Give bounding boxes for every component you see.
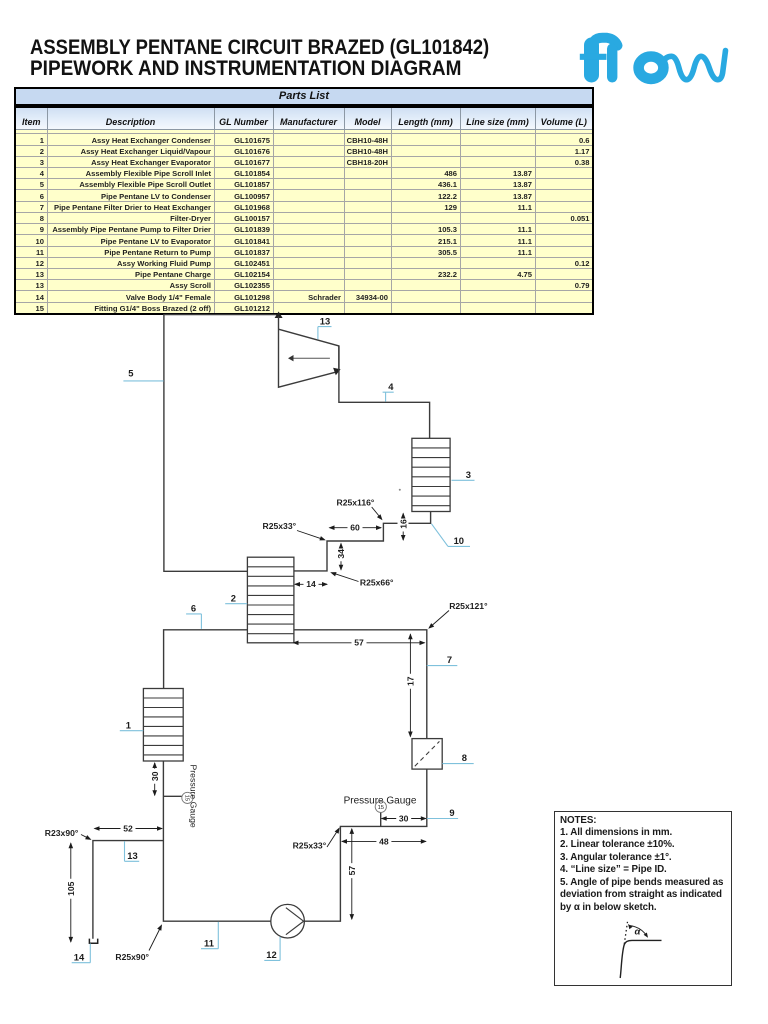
dim 60	[330, 527, 382, 529]
dim 57 top	[294, 642, 425, 644]
svg-text:R25x33°: R25x33°	[293, 840, 327, 850]
svg-text:R25x121°: R25x121°	[449, 601, 488, 611]
svg-text:R25x90°: R25x90°	[115, 952, 149, 962]
fitting 14 (valve body cup)	[89, 939, 97, 944]
svg-text:48: 48	[379, 836, 389, 846]
dim 16	[398, 517, 409, 536]
svg-text:60: 60	[350, 523, 360, 533]
svg-text:17: 17	[406, 676, 416, 686]
svg-text:Pressure Gauge: Pressure Gauge	[189, 765, 199, 828]
wire: pipe 10 HX3 to HX2	[294, 512, 431, 571]
logo l	[607, 49, 617, 78]
svg-text:15: 15	[183, 795, 189, 801]
heat exchanger 1 (evaporator)	[143, 689, 183, 762]
pump 12	[271, 904, 305, 938]
dim 34	[340, 544, 342, 570]
wire: pipe 13 charge branch	[93, 841, 163, 939]
flow arrow inside scroll	[293, 357, 330, 359]
dim 48	[342, 840, 426, 842]
logo o	[639, 57, 664, 79]
logo w	[664, 51, 726, 80]
svg-text:13: 13	[127, 850, 137, 861]
page title line 1	[30, 37, 489, 58]
svg-text:57: 57	[354, 638, 364, 648]
dim 30 right	[382, 818, 426, 820]
wire: pipe 6 HX2 to HX1	[164, 630, 248, 689]
svg-text:13: 13	[320, 316, 330, 327]
dim 17	[409, 634, 411, 736]
svg-text:34: 34	[336, 549, 346, 559]
svg-text:105: 105	[66, 881, 76, 896]
svg-text:12: 12	[266, 949, 276, 960]
notes sketch: pipe bend	[620, 940, 661, 978]
svg-text:6: 6	[191, 603, 196, 614]
wire: gauge 1 stub	[163, 795, 181, 797]
svg-text:57: 57	[347, 866, 357, 876]
svg-text:R23x90°: R23x90°	[45, 828, 79, 838]
flow logo	[575, 25, 760, 95]
dim 105	[70, 843, 72, 942]
parts list table	[14, 87, 594, 315]
svg-text:15: 15	[378, 805, 384, 811]
stray dot	[399, 489, 401, 491]
pressure gauge 1	[182, 792, 193, 803]
svg-text:3: 3	[466, 469, 471, 480]
arrowhead into scroll inlet	[275, 312, 283, 319]
scroll compressor 13 (trapezoid)	[279, 317, 339, 388]
svg-text:14: 14	[74, 951, 85, 962]
logo f	[584, 45, 599, 75]
svg-text:R25x116°: R25x116°	[337, 498, 375, 508]
svg-text:30: 30	[150, 771, 160, 781]
wire: scroll outlet pipe 5 (left tall riser + top run)	[164, 315, 277, 572]
svg-text:5: 5	[128, 368, 133, 379]
svg-text:10: 10	[454, 535, 464, 546]
svg-text:8: 8	[462, 752, 467, 763]
wire: pump outlet to filter	[304, 769, 426, 921]
notes sketch: dotted straight extension	[624, 922, 627, 944]
svg-text:52: 52	[123, 823, 133, 833]
svg-text:9: 9	[449, 807, 454, 818]
heat exchanger 2 (liquid/vapour)	[247, 557, 294, 643]
wire: pipe 4 scroll to condenser HX3	[339, 346, 430, 438]
dim 14	[295, 583, 327, 585]
dim 30 left	[154, 763, 156, 795]
page title line 2	[30, 58, 461, 79]
svg-text:1: 1	[126, 719, 131, 730]
dim 57 right	[351, 829, 353, 919]
svg-text:4: 4	[388, 381, 394, 392]
svg-text:30: 30	[399, 813, 409, 823]
wire: pipe 11 HX1 down to pump	[163, 761, 270, 921]
svg-text:11: 11	[204, 937, 214, 948]
heat exchanger 3 (condenser)	[412, 438, 450, 511]
svg-text:2: 2	[231, 593, 236, 604]
svg-text:R25x66°: R25x66°	[360, 578, 394, 588]
wire: gauge 2 stub	[380, 812, 382, 826]
svg-text:16: 16	[398, 519, 408, 529]
svg-text:R25x33°: R25x33°	[263, 521, 297, 531]
filter-dryer 8	[412, 739, 442, 770]
svg-text:14: 14	[306, 579, 316, 589]
svg-text:7: 7	[447, 654, 452, 665]
dim 52	[95, 828, 163, 830]
notes sketch: angle arc alpha	[630, 926, 648, 937]
wire: pipe 7 HX2 to filter riser	[294, 630, 427, 739]
notes box	[554, 811, 733, 986]
